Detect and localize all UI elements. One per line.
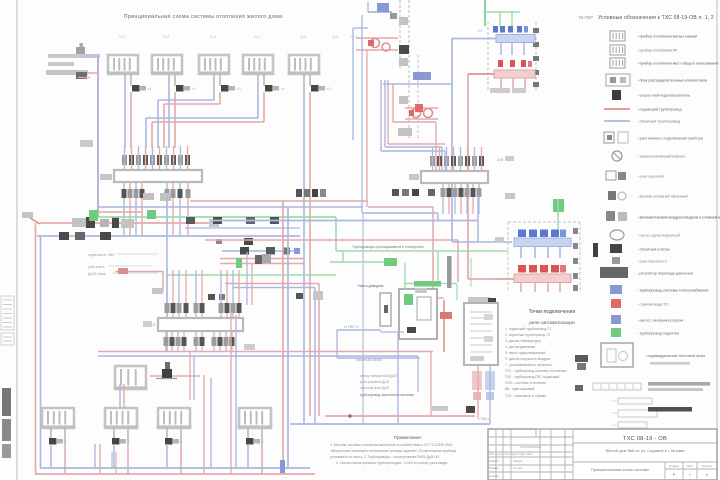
valve row on blue main bbox=[186, 217, 279, 224]
svg-text:- прибор отопления жилых комна: - прибор отопления жилых комнат bbox=[637, 35, 698, 39]
manifold 3 (collector) bbox=[158, 318, 243, 331]
svg-text:Примечания:: Примечания: bbox=[394, 435, 422, 440]
green drop to collector B bbox=[553, 199, 564, 235]
svg-text:Ду25 сталь: Ду25 сталь bbox=[88, 272, 106, 276]
side stamp text block 1 bbox=[2, 388, 11, 416]
purple elbow red stub bbox=[98, 211, 142, 213]
pump row on return main bbox=[72, 217, 219, 228]
radiator T5 long drop pipes bbox=[304, 86, 310, 424]
svg-text:установить по месту. 2. Трубоп: установить по месту. 2. Трубопроводы - п… bbox=[330, 455, 440, 459]
inlet valve bbox=[76, 43, 85, 54]
staircase pipes to manifold 2 bbox=[381, 80, 445, 171]
title block doc number bbox=[623, 436, 667, 442]
radiator T1 legs bbox=[125, 74, 131, 86]
svg-text:«Внутренние санитарно-техничес: «Внутренние санитарно-технические систем… bbox=[330, 449, 457, 453]
svg-text:2. обратный трубопровод Т2: 2. обратный трубопровод Т2 bbox=[505, 333, 550, 337]
expansion tank bbox=[156, 362, 177, 379]
radiator T4 valve bbox=[265, 85, 285, 92]
red branch pipe bbox=[115, 268, 163, 274]
ТХ3 row with strip bbox=[505, 382, 710, 398]
side stamp box 1 bbox=[1, 296, 14, 330]
manifold 1 riser valves bbox=[122, 155, 190, 165]
radiator T2 drop pipes bbox=[169, 86, 175, 148]
manifold 2 route right bbox=[452, 196, 512, 242]
svg-text:т5: т5 bbox=[327, 87, 331, 91]
return main pipe bbox=[30, 218, 210, 224]
svg-text:ТХС 08-19 - ОВ: ТХС 08-19 - ОВ bbox=[623, 436, 667, 442]
collector A blue drop bbox=[451, 38, 453, 242]
radiator T4 legs bbox=[258, 74, 264, 86]
lower red main bbox=[325, 414, 475, 418]
radiator B4 branch pipes bbox=[248, 444, 262, 474]
bottom red right seg bbox=[150, 352, 200, 400]
riser pair a bbox=[95, 444, 100, 474]
branch pair down bbox=[247, 252, 252, 305]
ITP bottom boxes bbox=[472, 371, 495, 400]
svg-text:- автоматический воздухоотводч: - автоматический воздухоотводчик и сливн… bbox=[637, 216, 720, 220]
svg-text:ТВ.ПВР: ТВ.ПВР bbox=[578, 15, 593, 20]
svg-text:- трубопровод подпитки: - трубопровод подпитки bbox=[637, 332, 679, 336]
unit drop pipes bbox=[380, 332, 431, 424]
inlet return pipe bbox=[76, 72, 98, 74]
main riser pipe (supply+return overlapped) bbox=[97, 56, 99, 218]
svg-text:Петров: Петров bbox=[513, 466, 523, 470]
left riser blue bbox=[40, 236, 42, 468]
riser label St1 bbox=[80, 140, 93, 147]
radiator T1 valve bbox=[132, 85, 152, 92]
riser pair d bbox=[231, 312, 236, 474]
automation unit green box bbox=[404, 294, 413, 305]
collector B dashed enclosure bbox=[508, 222, 580, 292]
radiator B2 legs bbox=[114, 428, 128, 444]
side stamp text block 2 bbox=[2, 419, 11, 441]
riser pair b bbox=[112, 384, 124, 474]
red branch drop bbox=[162, 271, 164, 292]
radiator B4 valve bbox=[246, 438, 264, 445]
automation unit inner box bbox=[417, 297, 431, 320]
manifold 1 (distribution collector) bbox=[114, 170, 202, 182]
dark bar legend bottom bbox=[648, 407, 692, 412]
manifold 2 (collector) bbox=[421, 171, 488, 183]
svg-text:Принципиальная схема системы: Принципиальная схема системы bbox=[591, 468, 649, 472]
radiator T5 legs bbox=[304, 74, 310, 86]
radiator T4 drop pipes bbox=[146, 86, 264, 148]
svg-text:Листов: Листов bbox=[702, 464, 712, 468]
svg-text:Провер.: Провер. bbox=[489, 466, 500, 470]
riser labels above radiators bbox=[119, 35, 356, 39]
svg-text:1: 1 bbox=[689, 473, 691, 477]
svg-text:Насос-доводчик: Насос-доводчик bbox=[358, 284, 384, 288]
svg-text:т4: т4 bbox=[281, 87, 285, 91]
svg-text:кран шаровой Ду15: кран шаровой Ду15 bbox=[360, 380, 389, 384]
radiator B1 legs bbox=[51, 428, 65, 444]
svg-text:Условные обозначения к ТХС 08-: Условные обозначения к ТХС 08-19-ОВ л. 1… bbox=[598, 15, 714, 21]
collector A red collector bar bbox=[468, 70, 535, 88]
makeup green box bbox=[89, 210, 98, 221]
bottom red distribution bbox=[98, 351, 433, 353]
collector A bottom labels bbox=[490, 88, 526, 93]
left vertical pale blue bbox=[353, 28, 368, 140]
svg-text:к Т96-1: к Т96-1 bbox=[478, 417, 489, 421]
svg-text:3. датчик температуры: 3. датчик температуры bbox=[505, 339, 541, 343]
svg-text:Разраб.: Разраб. bbox=[489, 459, 499, 463]
radiator T3 valve bbox=[221, 85, 241, 92]
ITP tall cabinet bbox=[464, 303, 498, 365]
green box 2 bbox=[147, 210, 156, 219]
blue branch to unit bbox=[337, 325, 420, 358]
svg-text:- трубопровод системы теплосна: - трубопровод системы теплоснабжения bbox=[637, 289, 708, 293]
collector A red drop bbox=[467, 74, 469, 279]
svg-text:- блок распределительных колле: - блок распределительных коллекторов bbox=[637, 79, 707, 83]
ITP label box bbox=[468, 297, 496, 305]
radiator T1 drop pipes bbox=[125, 86, 131, 148]
blue main long bbox=[210, 220, 478, 222]
cross pair blue bbox=[233, 287, 315, 289]
radiator T3 bbox=[198, 55, 231, 74]
collector B dark bar bbox=[495, 237, 598, 257]
manifold 3 right label bbox=[244, 344, 255, 350]
inlet lower valve bbox=[76, 72, 90, 79]
svg-text:- обратный трубопровод: - обратный трубопровод bbox=[637, 120, 681, 124]
blue riser center bbox=[166, 195, 168, 352]
drawing frame left border bbox=[16, 0, 18, 480]
manifold 2 right label bbox=[505, 193, 515, 199]
radiator B4 bbox=[238, 408, 273, 428]
dark blob row right bbox=[392, 189, 435, 196]
svg-text:5. насос циркуляционный: 5. насос циркуляционный bbox=[505, 351, 545, 355]
radiator B2 branch pipes bbox=[114, 444, 128, 474]
svg-text:Т: датчик наружного воздуха: Т: датчик наружного воздуха bbox=[505, 357, 550, 361]
svg-text:- обратный клапан: - обратный клапан bbox=[637, 248, 670, 252]
radiator T4 bbox=[242, 55, 275, 74]
unit label bbox=[358, 284, 427, 293]
svg-text:ТХ2 - трубопровод ГВС подающий: ТХ2 - трубопровод ГВС подающий bbox=[505, 375, 559, 379]
svg-text:- прибор отопления ЛК: - прибор отопления ЛК bbox=[637, 49, 678, 53]
legend rows bbox=[600, 31, 720, 337]
left supply branch blue bbox=[98, 206, 363, 208]
radiator T1 bbox=[107, 55, 140, 74]
ITP drop pipes bbox=[478, 365, 490, 424]
green lower branch bbox=[167, 274, 336, 276]
collector A blue valve row bbox=[478, 26, 528, 33]
svg-text:Лист: Лист bbox=[687, 464, 694, 468]
pipes text row bbox=[352, 245, 424, 249]
radiator B3 valve bbox=[165, 438, 183, 445]
expansion dashed lines bbox=[400, 0, 418, 140]
legend heading bbox=[598, 15, 714, 21]
collector B ticks bbox=[573, 228, 578, 291]
svg-text:Ст.1: Ст.1 bbox=[119, 35, 125, 39]
svg-text:узел учета: узел учета bbox=[88, 265, 105, 269]
svg-text:- фильтр сетчатый латунный: - фильтр сетчатый латунный bbox=[637, 195, 688, 199]
bottom main blue bbox=[40, 467, 310, 469]
radiator B3 branch pipes bbox=[167, 444, 181, 474]
dark wall bar bbox=[447, 256, 452, 288]
makeup water label bbox=[22, 212, 33, 218]
left return branch red bbox=[190, 200, 368, 202]
svg-text:обратный клапан: обратный клапан bbox=[356, 358, 382, 362]
svg-text:спускной кран Ду15: спускной кран Ду15 bbox=[360, 386, 389, 390]
manifold 3 label bbox=[143, 321, 156, 327]
manifold 2 label bbox=[409, 156, 514, 180]
svg-text:- скоростной водонагреватель: - скоростной водонагреватель bbox=[637, 94, 690, 98]
svg-text:- подающий трубопровод: - подающий трубопровод bbox=[637, 108, 682, 112]
manifold 2 riser valves bbox=[430, 156, 484, 166]
junction arrow bbox=[280, 460, 285, 473]
svg-text:- горячая вода Т3: - горячая вода Т3 bbox=[637, 303, 668, 307]
svg-text:Изм. Кол.уч. Лист №док. Подп.: Изм. Кол.уч. Лист №док. Подп. Дата bbox=[489, 452, 533, 456]
automation unit dark blob bbox=[407, 327, 416, 333]
svg-text:Принципиальная схема системы о: Принципиальная схема системы отопления ж… bbox=[124, 14, 284, 20]
ITP red feed bbox=[440, 300, 452, 352]
radiator T2 valve bbox=[176, 85, 196, 92]
lower blue main bbox=[290, 423, 490, 425]
manifold 2 down pipes bbox=[441, 183, 482, 214]
radiator B2 valve bbox=[112, 438, 130, 445]
svg-text:- узел нижнего подключения при: - узел нижнего подключения прибора bbox=[637, 137, 704, 141]
side stamp text block 3 bbox=[2, 444, 11, 458]
GVS blue label bbox=[383, 72, 452, 84]
mid riser pair bbox=[315, 284, 319, 425]
svg-text:- кран Маевского: - кран Маевского bbox=[637, 260, 667, 264]
collector A dashed enclosure bbox=[488, 22, 539, 90]
svg-text:4. датчик давления: 4. датчик давления bbox=[505, 345, 535, 349]
center U red bbox=[367, 50, 444, 298]
red label bottom bbox=[478, 417, 489, 421]
svg-text:подпитка от ХВС: подпитка от ХВС bbox=[88, 253, 115, 257]
small box pair left of unit bbox=[296, 291, 323, 300]
manifold 2 riser pipes bbox=[433, 147, 482, 172]
svg-text:Ст.5: Ст.5 bbox=[300, 35, 306, 39]
svg-text:т2: т2 bbox=[192, 87, 196, 91]
svg-text:- индивидуальный тепловой пунк: - индивидуальный тепловой пункт bbox=[645, 354, 706, 358]
svg-text:Стадия: Стадия bbox=[669, 464, 680, 468]
callout boxes bbox=[611, 398, 657, 428]
radiator B1 valve bbox=[49, 438, 67, 445]
collector B red valve row bbox=[518, 265, 566, 273]
svg-text:затвор поворотный Ду50: затвор поворотный Ду50 bbox=[360, 374, 397, 378]
svg-text:2: 2 bbox=[706, 473, 708, 477]
red valve row pipes bbox=[220, 254, 305, 268]
title block stage cols bbox=[665, 462, 717, 480]
upper dark blobs bbox=[216, 238, 253, 245]
collector B blue collector bar bbox=[514, 238, 571, 258]
radiator B1 bbox=[41, 408, 76, 428]
svg-text:- кран шаровой: - кран шаровой bbox=[637, 175, 664, 179]
svg-text:СОГЛАСОВАНО: СОГЛАСОВАНО bbox=[520, 445, 542, 449]
svg-text:ВК - кран шаровой: ВК - кран шаровой bbox=[505, 387, 534, 391]
blue valve row pipe bbox=[222, 247, 300, 255]
pump group blue bbox=[368, 2, 397, 19]
radiator B1 branch pipes bbox=[51, 444, 65, 474]
svg-text:Ст.2: Ст.2 bbox=[163, 35, 169, 39]
svg-text:ТХ1 - трубопровод системы отоп: ТХ1 - трубопровод системы отопления bbox=[505, 369, 566, 373]
collector A blue collector bar bbox=[452, 35, 535, 56]
title block object line bbox=[605, 448, 685, 453]
svg-text:- регулятор перепада давления: - регулятор перепада давления bbox=[637, 272, 693, 276]
pale blue drop bbox=[362, 213, 364, 424]
manifold 1 label bbox=[100, 174, 112, 180]
svg-text:Ст: Ст bbox=[478, 29, 483, 33]
connection list bbox=[505, 327, 566, 391]
inlet supply pipe bbox=[85, 55, 99, 57]
title block small rows bbox=[489, 445, 542, 478]
green supply top bbox=[483, 0, 520, 26]
radiator B3 bbox=[157, 408, 192, 428]
title block sheet name bbox=[591, 468, 649, 472]
legend ITP box symbol bbox=[601, 343, 706, 367]
svg-text:1. Монтаж системы отопления вы: 1. Монтаж системы отопления выполнить в … bbox=[330, 443, 453, 447]
svg-text:Иванов: Иванов bbox=[513, 459, 523, 463]
green main pipe bbox=[98, 217, 336, 251]
svg-text:- прибор отопления мест общего: - прибор отопления мест общего пользован… bbox=[637, 62, 718, 66]
svg-text:3. Уклоны магистральных трубоп: 3. Уклоны магистральных трубопроводов - … bbox=[336, 461, 448, 465]
svg-text:* - устанавливается проектом: * - устанавливается проектом bbox=[505, 363, 552, 367]
notes lines bbox=[330, 443, 457, 465]
svg-text:Трубопроводы прокладываются в: Трубопроводы прокладываются в техподполь… bbox=[352, 245, 424, 249]
svg-text:СОН - система отопления: СОН - система отопления bbox=[505, 381, 546, 385]
svg-text:реле автоматизации: реле автоматизации bbox=[529, 321, 575, 326]
riser pair c bbox=[204, 375, 211, 474]
extra valve blobs bbox=[208, 294, 225, 300]
svg-text:трубопровод заполнения системы: трубопровод заполнения системы bbox=[360, 393, 414, 397]
note text leaders bbox=[88, 253, 158, 276]
left riser red bbox=[35, 223, 37, 474]
gray column top bbox=[399, 17, 409, 136]
svg-text:Точки подключения: Точки подключения bbox=[529, 309, 576, 315]
long run blue vertical bbox=[287, 207, 289, 468]
valves on supply main bbox=[59, 232, 111, 240]
manifold 3 riser pipes bbox=[165, 270, 242, 319]
svg-text:Жилой дом №5 по ул. Садовой в: Жилой дом №5 по ул. Садовой в г. Москве bbox=[605, 448, 685, 453]
svg-text:- насос с мокрым ротором: - насос с мокрым ротором bbox=[637, 319, 684, 323]
collector B blue valve row bbox=[518, 230, 566, 238]
staircase gray box bbox=[398, 104, 423, 136]
title block grid bbox=[488, 429, 717, 480]
radiator T2 bbox=[151, 55, 184, 74]
svg-text:от ГВС Т3: от ГВС Т3 bbox=[344, 325, 359, 329]
radiator B4 legs bbox=[248, 428, 262, 444]
bottom main red bbox=[35, 473, 315, 475]
svg-text:Ст.6: Ст.6 bbox=[332, 35, 338, 39]
circulation pump cabinet bbox=[380, 293, 391, 326]
svg-text:т3: т3 bbox=[237, 87, 241, 91]
branch label bbox=[152, 288, 163, 294]
manifold 1 riser pipes bbox=[125, 146, 188, 171]
collector A red valve row bbox=[498, 60, 532, 67]
automation unit bbox=[399, 289, 437, 339]
red main long bbox=[205, 240, 458, 282]
inlet unit bars bbox=[46, 54, 100, 75]
radiator T3 legs bbox=[214, 74, 220, 86]
collector B red collector bar bbox=[495, 274, 571, 292]
long run red vertical bbox=[282, 201, 284, 474]
cross pair red bbox=[225, 283, 319, 285]
svg-text:Ст.3: Ст.3 bbox=[210, 35, 216, 39]
second blue main bbox=[185, 227, 300, 229]
pump group red bbox=[356, 38, 398, 51]
manifold 3 down valves bbox=[164, 331, 235, 352]
green pipe to unit bbox=[330, 251, 508, 300]
manifold 1 down pipes and valves bbox=[122, 182, 191, 236]
svg-text:- термостатический клапан: - термостатический клапан bbox=[637, 155, 685, 159]
svg-text:Н.контр.: Н.контр. bbox=[489, 474, 500, 478]
supply main pipe (blue) bbox=[37, 235, 300, 237]
svg-text:Ст.4: Ст.4 bbox=[254, 35, 260, 39]
svg-text:т1: т1 bbox=[148, 87, 152, 91]
side stamp box 2 bbox=[1, 333, 14, 345]
svg-text:- насос циркуляционный: - насос циркуляционный bbox=[637, 234, 680, 238]
label TBPVR bbox=[578, 15, 593, 20]
svg-text:1. подающий трубопровод Т1: 1. подающий трубопровод Т1 bbox=[505, 327, 551, 331]
drawing title bbox=[124, 14, 284, 20]
radiator S1 bbox=[114, 366, 148, 389]
radiator T5 valve bbox=[311, 85, 331, 92]
radiator B2 bbox=[104, 408, 139, 428]
svg-text:Ст5: Ст5 bbox=[497, 158, 503, 162]
bottom blue distribution bbox=[98, 356, 418, 392]
drawing frame right border bbox=[716, 0, 718, 480]
center text rows bbox=[356, 358, 448, 411]
radiator T5 bbox=[288, 55, 321, 74]
dark component left of legend bbox=[575, 355, 588, 370]
radiator T2 legs bbox=[169, 74, 175, 86]
radiator B3 legs bbox=[167, 428, 181, 444]
dark valve near ITP bbox=[466, 406, 475, 413]
red pump pair lower bbox=[405, 108, 438, 119]
center U blue bbox=[362, 15, 438, 221]
dark blob row above band bbox=[296, 189, 326, 197]
notes heading bbox=[394, 435, 422, 440]
collector B red feed bbox=[468, 278, 514, 280]
connection points heading bbox=[529, 309, 576, 326]
radiator T3 drop pipes bbox=[158, 86, 220, 148]
svg-text:ТХ3 - термометр в оправе: ТХ3 - термометр в оправе bbox=[505, 394, 546, 398]
